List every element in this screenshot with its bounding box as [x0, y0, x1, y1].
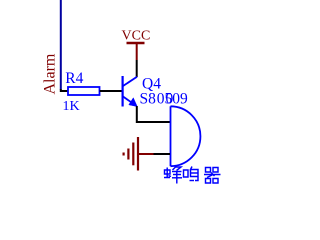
ground bar 4: [122, 153, 124, 156]
ground bar 1: [137, 137, 139, 171]
power VCC stem: [136, 43, 138, 60]
wire: corner from Alarm wire to resistor left lead: [60, 90, 68, 92]
wire: Alarm net vertical wire: [60, 0, 62, 90]
buzzer LS dome arc: [171, 106, 201, 166]
wire: ground to buzzer bottom lead: [154, 153, 171, 155]
wire: VCC to collector: [136, 60, 138, 77]
wire: resistor right lead to transistor base: [100, 90, 122, 92]
resistor R4: [68, 87, 100, 95]
label buzzer hanzi 器: [204, 168, 221, 184]
svg-text:1K: 1K: [63, 99, 80, 114]
label buzzer hanzi 鸣: [184, 167, 199, 181]
ground bar 2: [132, 143, 134, 166]
svg-text:VCC: VCC: [122, 29, 151, 44]
ground bar 3: [127, 149, 129, 160]
svg-text:0: 0: [166, 90, 174, 107]
label buzzer hanzi 蜂: [164, 167, 182, 184]
transistor Q4 emitter arrowhead: [129, 98, 138, 107]
svg-text:S8: S8: [140, 90, 157, 107]
transistor Q4 base bar: [121, 76, 123, 107]
svg-text:R4: R4: [65, 70, 83, 87]
buzzer LS flat edge: [170, 106, 172, 166]
ground symbol stem (lead to buzzer, maroon part): [138, 153, 154, 155]
power VCC symbol (bar): [127, 42, 145, 44]
svg-text:Alarm: Alarm: [42, 53, 59, 94]
transistor Q4 collector stroke: [123, 77, 137, 86]
transistor Q4 emitter stroke: [123, 97, 133, 104]
wire: emitter to buzzer top lead: [137, 106, 170, 122]
